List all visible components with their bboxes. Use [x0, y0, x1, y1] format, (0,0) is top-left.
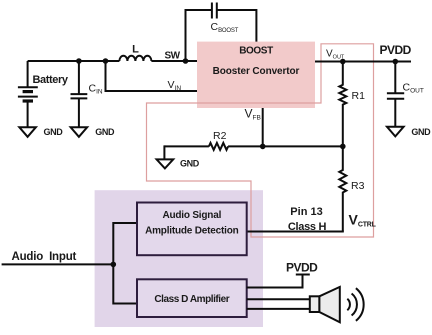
- sound waves: [347, 288, 363, 321]
- resistor R3: [339, 146, 346, 231]
- wire: speaker line -: [247, 308, 310, 310]
- svg-text:Amplitude Detection: Amplitude Detection: [145, 226, 239, 237]
- inductor L: [119, 56, 151, 61]
- speaker LS1: [310, 287, 340, 322]
- wire: battery rail to inductor: [28, 60, 120, 62]
- wire: CBOOST left leg: [186, 10, 212, 61]
- svg-text:R3: R3: [351, 180, 365, 192]
- node: CIN junction: [76, 58, 82, 64]
- node: audio input branch: [111, 262, 117, 268]
- svg-text:Audio Input: Audio Input: [12, 251, 77, 263]
- ground (battery): [19, 127, 36, 137]
- svg-text:BOOST: BOOST: [239, 46, 273, 57]
- svg-text:L: L: [132, 44, 139, 56]
- node: VOUT / R1: [340, 59, 346, 65]
- wire: speaker line +: [247, 298, 310, 300]
- amplitude detection block: [137, 203, 247, 256]
- svg-text:GND: GND: [180, 159, 200, 169]
- wire: inductor to SW pin: [151, 60, 197, 62]
- wire: R2 ground stub: [163, 145, 165, 159]
- wire: feedback rail left of R2: [164, 145, 209, 147]
- node: R1 / R3: [340, 144, 346, 150]
- wire: VIN branch to booster: [106, 61, 198, 91]
- svg-text:Class D Amplifier: Class D Amplifier: [154, 294, 229, 305]
- wire: class D PVDD feed: [247, 275, 303, 288]
- capacitor CBOOST: [212, 3, 217, 19]
- ground (R2): [157, 159, 174, 168]
- audio subsystem block (purple region): [95, 190, 263, 327]
- class D amplifier block: [137, 279, 247, 317]
- wire: VOUT rail: [315, 61, 411, 63]
- svg-text:Booster Convertor: Booster Convertor: [213, 66, 300, 77]
- booster converter block U1: [197, 42, 315, 108]
- svg-text:R2: R2: [213, 130, 227, 142]
- wire: VCTRL to amplitude detection: [247, 231, 344, 233]
- svg-text:PVDD: PVDD: [380, 43, 412, 57]
- svg-text:SW: SW: [165, 51, 181, 62]
- svg-text:Battery: Battery: [33, 74, 69, 86]
- ground (COUT): [387, 127, 404, 137]
- ground (CIN): [71, 127, 88, 137]
- node: SW / CBOOST junction: [183, 58, 189, 64]
- svg-text:GND: GND: [411, 127, 431, 137]
- battery BT1: [18, 61, 38, 127]
- svg-text:PVDD: PVDD: [286, 260, 318, 274]
- node: VFB: [260, 144, 266, 150]
- highlight outline: feedback network: [147, 44, 374, 237]
- wire: VFB from booster: [262, 108, 264, 146]
- svg-text:GND: GND: [95, 127, 115, 137]
- wire: audio input: [2, 263, 114, 265]
- wire: branch to class D amplifier: [113, 264, 137, 303]
- wire: CBOOST right leg: [217, 10, 257, 42]
- svg-text:R1: R1: [352, 90, 366, 102]
- power tap bar PVDD: [296, 274, 310, 276]
- capacitor COUT: [387, 62, 404, 127]
- resistor R2: [209, 143, 228, 150]
- svg-text:Pin 13: Pin 13: [290, 206, 322, 218]
- capacitor CIN: [71, 61, 88, 127]
- wire: feedback rail right of R2: [228, 145, 343, 147]
- node: VIN branch: [103, 58, 109, 64]
- wire: branch to amplitude detection: [113, 223, 137, 264]
- resistor R1: [339, 62, 346, 147]
- node: PVDD / COUT: [393, 59, 399, 65]
- svg-text:GND: GND: [44, 127, 64, 137]
- svg-text:Audio Signal: Audio Signal: [162, 210, 221, 221]
- svg-text:Class H: Class H: [288, 221, 327, 233]
